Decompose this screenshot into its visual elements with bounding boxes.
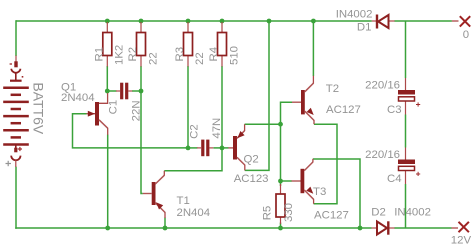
diode D2 <box>372 221 395 234</box>
svg-text:IN4002: IN4002 <box>394 206 431 218</box>
svg-text:BATT6V: BATT6V <box>31 82 47 135</box>
wire R3 bottom lead <box>187 66 189 148</box>
wire Q2 collector to top rail via x=269 <box>245 21 269 170</box>
battery BATT6V <box>3 56 29 168</box>
wire T2 collector to top rail <box>312 21 314 76</box>
wire bottom rail <box>15 227 451 229</box>
svg-text:T1: T1 <box>177 195 190 207</box>
transistor T1 <box>143 171 165 218</box>
wire C3 C4 column <box>405 21 407 228</box>
svg-text:0: 0 <box>463 29 469 41</box>
svg-text:T3: T3 <box>313 186 326 198</box>
svg-text:220/16: 220/16 <box>365 149 400 161</box>
wire T3 collector to bottom rail <box>313 159 360 228</box>
wire T2 emitter to T3 emitter <box>314 124 337 204</box>
wire Q1 emitter to C2 net <box>73 114 189 148</box>
wire node column down to T3 base junction <box>280 124 282 181</box>
capacitor C4 <box>398 148 420 185</box>
svg-text:C1: C1 <box>108 100 120 115</box>
svg-text:1K2: 1K2 <box>114 45 126 65</box>
junction node C1 left R1 <box>105 89 110 94</box>
wire top rail <box>16 20 452 22</box>
wire node column up to T2 base <box>281 102 293 124</box>
wire C2 right to R4 column <box>214 147 223 149</box>
svg-text:AC127: AC127 <box>314 210 349 222</box>
wire C1 left <box>107 90 116 92</box>
wire R5 bottom lead <box>280 223 282 229</box>
bottom pin <box>15 145 17 149</box>
svg-text:2N404: 2N404 <box>177 207 211 219</box>
svg-text:IN4002: IN4002 <box>336 9 373 21</box>
wire Q2 emitter to node column <box>245 123 281 125</box>
wire C2 left stub <box>188 147 198 149</box>
junction top rail R1 <box>105 19 110 24</box>
resistor R5 <box>276 184 285 224</box>
junction node R4 Q2 base <box>220 146 225 151</box>
capacitor C2 <box>197 140 213 157</box>
resistor R3 <box>184 22 193 67</box>
svg-text:D2: D2 <box>371 206 386 218</box>
svg-text:220/16: 220/16 <box>365 80 400 92</box>
svg-text:AC123: AC123 <box>234 173 269 185</box>
wire column C1/R2 down to T1 base <box>141 91 143 194</box>
wire T1 collector to R4 junction <box>164 148 222 171</box>
svg-text:R1: R1 <box>93 47 105 62</box>
junction top rail Q2 collector <box>267 19 272 24</box>
junction top rail R2 <box>139 19 144 24</box>
junction top rail R4 <box>220 19 225 24</box>
svg-text:R2: R2 <box>127 47 139 62</box>
junction bottom rail T3 collector <box>358 226 363 231</box>
svg-text:D1: D1 <box>357 22 372 34</box>
svg-text:C4: C4 <box>387 173 402 185</box>
capacitor C1 <box>116 83 132 100</box>
svg-text:47N: 47N <box>211 118 223 139</box>
junction bottom rail R5 <box>278 226 283 231</box>
wire C1 right to R2 column <box>132 90 141 92</box>
wire T1 emitter down to bottom rail <box>164 218 166 229</box>
wire R1 bottom lead <box>106 66 108 91</box>
junction top rail R3 <box>186 19 191 24</box>
svg-text:22: 22 <box>147 52 159 65</box>
junction bottom rail Q1 collector <box>105 226 110 231</box>
wire R4 junction to Q2 base <box>222 147 229 149</box>
wire R4 bottom lead <box>221 66 223 148</box>
svg-text:510: 510 <box>228 46 240 65</box>
svg-text:22: 22 <box>194 52 206 65</box>
svg-text:C2: C2 <box>189 124 201 139</box>
pin 12V bottom right <box>452 222 469 232</box>
junction node Q2 emitter <box>278 122 283 127</box>
capacitor C3 <box>398 78 420 115</box>
svg-text:12V: 12V <box>451 235 472 247</box>
resistor R2 <box>137 22 146 67</box>
junction node R3 C2 <box>186 146 191 151</box>
wire R5 top lead <box>280 181 282 186</box>
svg-text:330: 330 <box>283 203 295 222</box>
junction node C1 right R2 <box>139 89 144 94</box>
pin 0 top right <box>452 16 470 26</box>
diode D1 <box>372 15 395 29</box>
svg-text:Q2: Q2 <box>244 153 259 165</box>
transistor Q2 <box>228 124 245 170</box>
transistor Q1 <box>87 93 108 135</box>
svg-text:22N: 22N <box>131 100 143 121</box>
wire T3 base junction to T3 base <box>281 180 292 182</box>
svg-text:R3: R3 <box>174 47 186 62</box>
battery plus gray mark <box>6 161 12 166</box>
resistor R1 <box>103 22 112 67</box>
wire R2 bottom lead <box>140 66 142 91</box>
transistor T3 <box>292 159 314 204</box>
svg-text:R5: R5 <box>262 206 274 221</box>
cells <box>3 88 29 145</box>
transistor T2 <box>292 76 314 124</box>
svg-text:2N404: 2N404 <box>61 92 95 104</box>
svg-text:C3: C3 <box>387 104 402 116</box>
svg-text:T2: T2 <box>326 83 339 95</box>
wire Q1 collector down to bottom rail <box>107 135 109 229</box>
junction top rail T2 collector <box>311 19 316 24</box>
svg-text:AC127: AC127 <box>326 104 361 116</box>
junction node T3 base R5 <box>278 179 283 184</box>
wire left battery column <box>15 20 17 229</box>
svg-text:R4: R4 <box>208 47 220 62</box>
junction bottom rail T1 emitter <box>163 226 168 231</box>
resistor R4 <box>218 22 227 67</box>
top pin <box>15 56 17 63</box>
